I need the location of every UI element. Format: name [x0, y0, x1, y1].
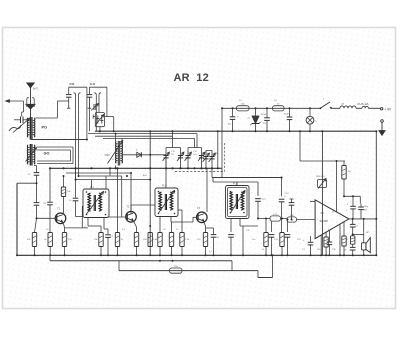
svg-text:+ 9V: + 9V [384, 108, 392, 112]
svg-text:C.I.: C.I. [321, 211, 326, 215]
svg-text:47µF: 47µF [284, 114, 289, 116]
svg-text:P.O: P.O [70, 82, 75, 86]
svg-text:SO41P: SO41P [320, 219, 329, 223]
svg-text:GO: GO [44, 152, 50, 156]
svg-text:G.O: G.O [193, 154, 197, 156]
svg-text:REG.VOL: REG.VOL [316, 176, 326, 178]
svg-text:1n: 1n [176, 229, 178, 231]
svg-text:PO: PO [42, 126, 48, 130]
svg-text:ANT: ANT [33, 88, 38, 91]
svg-text:G.O: G.O [90, 82, 96, 86]
svg-text:FUS·2A: FUS·2A [358, 102, 370, 106]
svg-text:AR 12: AR 12 [174, 72, 209, 84]
svg-text:self: self [341, 104, 345, 106]
svg-text:1k: 1k [262, 249, 264, 251]
svg-text:10n: 10n [252, 239, 255, 241]
svg-text:AGC: AGC [143, 174, 148, 177]
svg-text:P.O: P.O [171, 154, 175, 156]
svg-text:OSC: OSC [105, 154, 110, 157]
svg-text:100µF: 100µF [261, 114, 267, 116]
